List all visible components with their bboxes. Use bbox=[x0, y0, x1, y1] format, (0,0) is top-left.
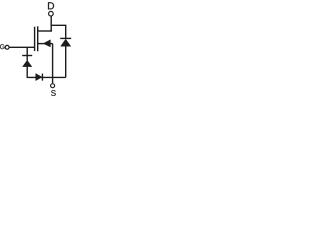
terminal D circle bbox=[49, 11, 54, 16]
MOSFET Q1 source arrow bbox=[43, 40, 50, 47]
label D bbox=[48, 2, 54, 9]
label S bbox=[51, 90, 56, 96]
MOSFET Q1 gate bar bbox=[34, 27, 36, 51]
wire zener branch down bbox=[26, 47, 28, 60]
wire bottom rail bbox=[27, 76, 66, 78]
wire source lead bbox=[38, 43, 53, 45]
wire top rail to body diode bbox=[51, 25, 65, 38]
terminal G circle bbox=[5, 45, 9, 49]
wire below D1 to bottom rail bbox=[26, 67, 28, 78]
diode D3 body diode triangle pointing up bbox=[61, 39, 71, 46]
wire body diode down to rail bbox=[65, 46, 67, 77]
diode D2 cathode bar bbox=[41, 74, 43, 81]
diode D2 triangle (pointing right) bbox=[36, 74, 42, 81]
MOSFET Q1 channel bar bbox=[37, 26, 39, 51]
wire drain lead bbox=[38, 30, 52, 32]
terminal S circle bbox=[51, 84, 55, 88]
wire D stub down from circle bbox=[50, 16, 52, 32]
diode D3 body diode cathode bar bbox=[60, 37, 71, 39]
label G bbox=[0, 44, 4, 49]
wire gate from G circle to gate bar bbox=[9, 46, 34, 48]
diode D1 cathode bar bbox=[22, 55, 32, 57]
wire source spine down to S bbox=[52, 44, 54, 84]
diode D1 triangle (anode below, pointing up) bbox=[23, 60, 32, 66]
